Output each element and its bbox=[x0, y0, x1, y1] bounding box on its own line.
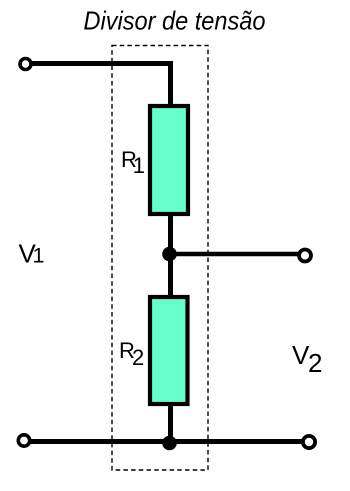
enclosure dashed box bbox=[112, 46, 208, 471]
svg-text:1: 1 bbox=[133, 153, 145, 178]
wire: node A to V2 terminal bbox=[169, 252, 298, 257]
svg-text:Divisor de tensão: Divisor de tensão bbox=[84, 6, 266, 36]
resistor R2 bbox=[150, 297, 188, 404]
label V1 bbox=[19, 239, 45, 269]
label R2 bbox=[119, 338, 144, 370]
svg-text:2: 2 bbox=[132, 345, 144, 370]
svg-text:2: 2 bbox=[308, 348, 322, 378]
svg-text:1: 1 bbox=[33, 244, 45, 268]
resistor R1 bbox=[150, 106, 188, 214]
wire: V1 terminal to R1 top (L-shape) bbox=[31, 64, 171, 107]
wire: R2 bottom to node B bbox=[168, 404, 173, 444]
terminal bottom-left open circle bbox=[18, 435, 29, 446]
wire: R1 bottom to node A bbox=[168, 214, 173, 256]
title "Divisor de tensão" bbox=[84, 6, 266, 36]
wire: bottom rail bbox=[30, 439, 303, 444]
terminal V2 (mid-right open circle) bbox=[299, 250, 311, 262]
node B (bottom junction dot) bbox=[162, 436, 177, 451]
node A (junction dot) bbox=[162, 247, 177, 262]
wire: node A to R2 top bbox=[168, 252, 173, 297]
terminal bottom-right open circle bbox=[303, 436, 315, 448]
label R1 bbox=[121, 147, 145, 178]
terminal V1 (top-left open circle) bbox=[20, 59, 31, 70]
label V2 bbox=[292, 340, 322, 378]
